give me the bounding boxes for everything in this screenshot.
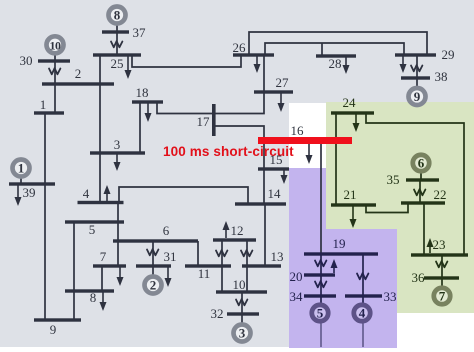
wire 24-23: [366, 113, 464, 255]
transformer 12-13: [241, 250, 252, 256]
wire 11-10: [221, 266, 223, 292]
generator stub G10: [54, 55, 56, 60]
wire 5-8: [73, 222, 75, 291]
wire 20-34: [320, 275, 322, 296]
wire 6-31: [152, 241, 154, 266]
bus 32: [227, 312, 259, 315]
svg-text:9: 9: [414, 89, 421, 104]
bus 7: [93, 264, 126, 267]
transformer 19-20: [315, 260, 326, 266]
svg-text:6: 6: [163, 223, 170, 238]
bus 24: [331, 111, 374, 114]
bus 37: [102, 30, 129, 33]
wire 22-23: [423, 203, 425, 255]
svg-text:18: 18: [136, 85, 149, 100]
bus 28: [316, 54, 356, 57]
wire 35-G6: [420, 172, 422, 180]
wire 3-4: [99, 153, 101, 202]
bus 17 vertical: [212, 104, 216, 136]
transformer 23-36: [436, 261, 447, 267]
load bus 31: [167, 266, 169, 282]
bus 36: [424, 276, 459, 279]
generator G7: [434, 288, 450, 304]
gen arrow bus 12 (up): [225, 226, 227, 238]
wire 23-36: [441, 255, 443, 278]
generator G1: [13, 160, 30, 177]
wire 26-29 upper: [249, 32, 427, 55]
svg-text:24: 24: [343, 95, 357, 110]
wire 37-25: [116, 32, 118, 55]
svg-text:13: 13: [271, 249, 284, 264]
wire 14-13: [264, 204, 266, 266]
svg-text:9: 9: [50, 322, 57, 337]
transformer 2-30: [49, 68, 60, 74]
bus 15: [258, 167, 289, 170]
bus 4: [78, 201, 124, 204]
svg-text:3: 3: [114, 137, 121, 152]
svg-text:14: 14: [268, 186, 282, 201]
load arrows (down) gray zone: [15, 55, 407, 311]
bus 11: [185, 264, 231, 267]
transformer squiggles: [49, 41, 422, 305]
svg-text:15: 15: [270, 152, 283, 167]
wire 13-10: [246, 266, 248, 292]
gen arrow bus 4 (up): [106, 190, 108, 202]
bus 9: [34, 318, 81, 321]
svg-text:23: 23: [433, 237, 446, 252]
svg-text:2: 2: [150, 278, 157, 293]
bus 22: [401, 201, 445, 204]
bus 6: [113, 239, 198, 242]
svg-text:26: 26: [233, 40, 247, 55]
load bus 18: [147, 102, 149, 117]
wire 2-1: [54, 84, 56, 113]
bus 2: [42, 82, 114, 85]
transformer 10-32: [236, 299, 247, 305]
green zone: [326, 102, 474, 313]
svg-text:6: 6: [418, 156, 425, 171]
svg-text:35: 35: [387, 172, 400, 187]
wire 10-32: [241, 292, 243, 314]
load bus 26: [256, 55, 258, 68]
wire 34-G5: [320, 296, 322, 303]
svg-text:5: 5: [317, 306, 324, 321]
bus 29: [395, 53, 436, 56]
wire 2-25: [99, 55, 101, 84]
load bus 21: [352, 205, 354, 223]
wire 36-G7: [441, 278, 443, 286]
svg-text:39: 39: [23, 185, 36, 200]
bus 19: [304, 252, 378, 255]
svg-text:31: 31: [164, 249, 177, 264]
bus 31: [136, 264, 171, 267]
bus 10: [216, 290, 267, 293]
load bus 3: [116, 153, 118, 166]
bus 21: [331, 203, 376, 206]
wire 18-3: [139, 102, 141, 153]
white highlight zone around bus 16: [289, 103, 326, 168]
svg-text:12: 12: [231, 223, 244, 238]
generator stub G8: [116, 25, 118, 31]
svg-text:34: 34: [290, 289, 304, 304]
wire 17-16: [214, 126, 264, 141]
white bottom-right corner: [397, 313, 474, 352]
svg-text:10: 10: [233, 277, 246, 292]
purple zone upper strip: [289, 168, 326, 229]
svg-text:7: 7: [439, 289, 446, 304]
wire below G5: [320, 321, 322, 347]
load bus 25: [127, 55, 129, 74]
generator stub G1: [20, 177, 22, 183]
wire 19-33: [362, 254, 364, 296]
svg-text:30: 30: [20, 53, 33, 68]
bus 35: [406, 178, 439, 181]
svg-text:37: 37: [133, 25, 147, 40]
svg-text:2: 2: [75, 66, 82, 81]
svg-text:1: 1: [18, 161, 25, 176]
wire 6-11: [197, 241, 199, 266]
svg-text:5: 5: [89, 222, 96, 237]
bus 33: [345, 294, 382, 297]
svg-text:33: 33: [384, 289, 397, 304]
bus 39: [9, 182, 55, 185]
wire 26-28-29: [265, 43, 404, 55]
wire 7-8: [101, 266, 103, 291]
svg-text:20: 20: [290, 269, 303, 284]
load bus 29: [402, 55, 404, 68]
svg-text:11: 11: [198, 266, 211, 281]
load bus 24: [355, 113, 357, 127]
svg-text:4: 4: [83, 186, 90, 201]
wire 5-6: [117, 222, 119, 241]
svg-text:17: 17: [197, 114, 211, 129]
svg-text:3: 3: [239, 326, 246, 341]
wire below G4: [362, 321, 364, 347]
bus 25: [93, 53, 141, 56]
wire 12-11: [221, 240, 223, 266]
svg-text:10: 10: [50, 38, 62, 52]
wire 30-2: [54, 61, 56, 84]
generator G4: [354, 305, 370, 321]
transformer 20-34: [315, 281, 326, 287]
bus 26: [233, 53, 274, 56]
bus 34: [304, 294, 336, 297]
wire 19-20: [320, 254, 322, 275]
transformer 22-35: [414, 189, 425, 195]
generator G6: [413, 155, 429, 171]
svg-text:29: 29: [442, 47, 455, 62]
load bus 15: [283, 169, 285, 179]
wire 24-16-21: [335, 113, 337, 205]
bus bars: green zone: [331, 111, 468, 279]
wire 25-26: [132, 55, 241, 67]
svg-text:28: 28: [329, 56, 342, 71]
bus 38: [401, 76, 430, 79]
wire 4-5: [117, 202, 119, 222]
wire 16-15: [263, 141, 265, 169]
svg-text:25: 25: [111, 56, 124, 71]
generator G10: [47, 36, 64, 53]
svg-text:27: 27: [276, 75, 290, 90]
wire 16-19: [320, 141, 322, 254]
transformer 6-31: [147, 249, 158, 255]
bus 20: [304, 273, 335, 276]
transformer 19-33: [357, 273, 368, 279]
load bus 16: [308, 144, 310, 159]
generator G9: [409, 88, 426, 105]
svg-text:21: 21: [344, 187, 357, 202]
load bus 39: [17, 184, 19, 201]
bus 13: [242, 264, 281, 267]
wire 6-7: [117, 241, 119, 266]
bus 3: [90, 151, 145, 154]
wire 21-22: [366, 203, 408, 213]
generator stub G2: [152, 267, 154, 275]
svg-text:19: 19: [333, 236, 346, 251]
bus 27: [254, 90, 293, 93]
wire 32-G3: [241, 314, 243, 324]
generator G2: [145, 277, 162, 294]
wire 12-13: [246, 240, 248, 266]
transformer 29-38: [411, 65, 422, 71]
svg-text:1: 1: [40, 97, 47, 112]
wire 33-G4: [362, 296, 364, 303]
wire 28 riser: [321, 43, 323, 56]
wire 26-27: [263, 55, 265, 92]
short-circuit red bar at bus 16: [258, 137, 352, 144]
svg-text:36: 36: [412, 270, 426, 285]
bus 8: [65, 289, 114, 292]
load bus 27: [280, 92, 282, 107]
wire 17-27: [214, 92, 264, 114]
wire 2-3: [99, 84, 101, 153]
svg-text:8: 8: [114, 8, 121, 23]
wire 18-17: [157, 102, 213, 114]
svg-text:16: 16: [291, 123, 305, 138]
wire 4-14: [119, 187, 248, 204]
load bus 7: [119, 266, 121, 281]
bus 30: [38, 59, 70, 62]
wire 29-38: [416, 55, 418, 78]
bus 18: [132, 100, 163, 103]
generator G3: [234, 325, 251, 342]
bus 5: [65, 220, 124, 223]
transformer 12-11: [216, 250, 227, 256]
bus 23: [411, 253, 468, 256]
wire 22-35: [419, 180, 421, 203]
bus bars: purple zone: [304, 252, 382, 297]
purple zone main: [289, 229, 397, 348]
wire 8-9: [73, 291, 75, 320]
bus 1: [34, 111, 64, 114]
generator G8: [109, 7, 126, 24]
svg-text:8: 8: [90, 290, 97, 305]
generator G5: [312, 305, 328, 321]
wire 15-14: [263, 169, 265, 204]
wire 1-39-9: [44, 113, 46, 320]
bus 14: [235, 202, 286, 205]
transformer 25-37: [111, 41, 122, 47]
bus bars: gray zone: [9, 30, 436, 321]
load bus 8: [102, 291, 104, 306]
gen arrow bus 23 (up): [429, 243, 431, 253]
svg-text:38: 38: [435, 69, 448, 84]
bus 12: [213, 238, 256, 241]
svg-text:32: 32: [211, 306, 224, 321]
wire 38-G9: [416, 78, 418, 86]
svg-text:22: 22: [434, 187, 447, 202]
svg-text:4: 4: [359, 306, 366, 321]
svg-text:7: 7: [100, 249, 107, 264]
load bus 28: [345, 56, 347, 69]
gen arrow bus 20 (up): [333, 264, 335, 273]
